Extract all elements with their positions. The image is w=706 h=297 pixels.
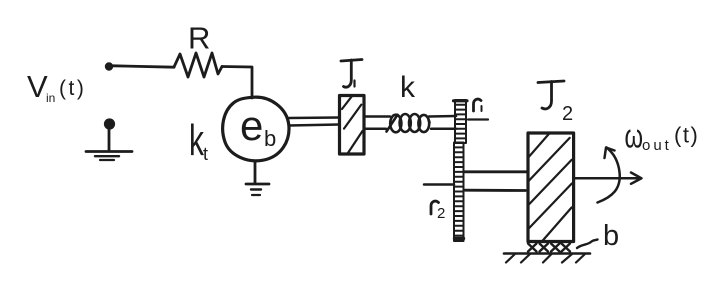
svg-text:V: V	[27, 69, 48, 104]
inertia J2	[528, 133, 574, 242]
svg-text:b: b	[603, 220, 619, 252]
label J2	[538, 81, 573, 125]
label r2	[431, 201, 445, 222]
inertia J1	[340, 96, 365, 155]
wire stub left of gear 2	[424, 183, 454, 186]
svg-text:in: in	[46, 91, 55, 105]
svg-text:(t): (t)	[674, 123, 699, 148]
motor circle eb	[223, 97, 289, 161]
svg-text:ω: ω	[625, 119, 644, 156]
resistor R	[174, 53, 222, 77]
shaft motor to J1	[289, 116, 339, 119]
svg-text:k: k	[400, 71, 416, 104]
label kt (motor constant)	[189, 116, 208, 165]
ground under J2	[504, 252, 590, 255]
pointer line to b	[577, 240, 598, 249]
label wout(t)	[625, 119, 700, 156]
wire motor bottom to ground	[254, 161, 257, 184]
wire resistor to motor top	[222, 67, 252, 99]
gear 2 (radius r2) toothed strip	[454, 143, 464, 242]
svg-text:out: out	[642, 137, 672, 154]
svg-text:b: b	[264, 126, 276, 151]
svg-text:(t): (t)	[59, 77, 86, 100]
svg-text:t: t	[203, 144, 208, 164]
svg-text:2: 2	[437, 205, 445, 222]
svg-text:e: e	[240, 102, 263, 149]
gear 1 (radius r1) toothed strip	[454, 100, 468, 143]
shaft spring to gear 1	[429, 115, 456, 118]
ground left (below Vin node)	[86, 118, 132, 160]
rotation arrow wout	[598, 148, 620, 203]
svg-text:2: 2	[562, 103, 573, 125]
shaft gear 2 to J2	[465, 170, 528, 173]
svg-text:R: R	[188, 21, 210, 56]
spring k (torsional shaft)	[387, 114, 430, 132]
label J1	[341, 60, 362, 88]
label Vin(t)	[27, 69, 86, 105]
label r1	[468, 99, 488, 119]
shaft J1 to spring	[364, 115, 390, 118]
output shaft arrow	[574, 177, 638, 180]
wire Vin node to resistor	[113, 66, 174, 67]
ground motor	[246, 184, 269, 195]
node Vin terminal dot	[105, 62, 113, 70]
bearing friction xxxx	[528, 244, 570, 252]
label eb (back emf)	[240, 102, 276, 151]
